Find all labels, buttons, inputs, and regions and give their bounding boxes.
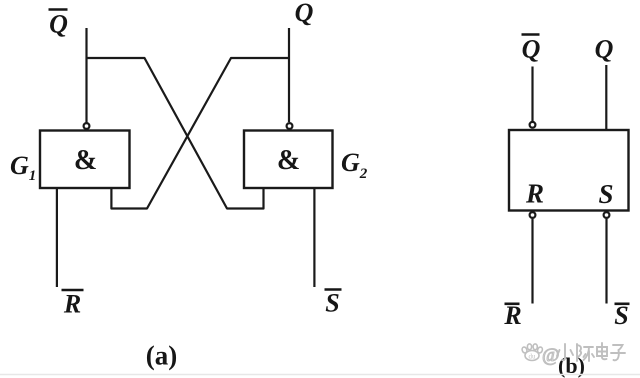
watermark character chen [577, 344, 594, 361]
latch block (b) [509, 130, 629, 211]
svg-text:Q: Q [295, 0, 314, 27]
wire Q-bar (b) [531, 67, 533, 122]
node S-bar (a) [325, 289, 342, 318]
svg-text:S: S [325, 289, 339, 318]
wire Q output vertical [288, 28, 290, 122]
wire S-bar (b) [605, 219, 607, 304]
watermark character xiao [557, 344, 573, 360]
wire R-bar input (a) [56, 188, 58, 287]
wire cross-couple from Q-bar node to G2 lower input [87, 58, 264, 209]
gate G2 (NAND) body [244, 131, 333, 189]
inverter bubble Q-bar output (b) [530, 122, 536, 128]
watermark character dian [597, 343, 607, 359]
inverter bubble G2 output [287, 123, 293, 129]
node Q-bar (a) [49, 10, 69, 39]
bottom separator line [0, 374, 640, 376]
svg-text:S: S [614, 301, 628, 330]
gate G1 (NAND) body [40, 131, 130, 189]
svg-text:(a): (a) [146, 341, 177, 371]
inverter bubble S input (b) [604, 212, 610, 218]
svg-text:Q: Q [595, 35, 614, 64]
svg-text:R: R [503, 301, 521, 330]
watermark baidu paw logo [521, 344, 543, 361]
node Q-bar (b) [522, 35, 541, 64]
svg-text:du: du [529, 353, 537, 361]
node R-bar (b) [503, 301, 521, 330]
inverter bubble R input (b) [530, 212, 536, 218]
svg-text:Q: Q [522, 35, 541, 64]
svg-text:S: S [598, 179, 613, 209]
wire Q-bar output vertical [85, 28, 87, 123]
wire S-bar input (a) [313, 188, 315, 287]
svg-text:Q: Q [49, 10, 68, 39]
svg-text:&: & [74, 145, 97, 176]
watermark character zi [611, 345, 625, 360]
node S-bar (b) [614, 301, 629, 330]
svg-text:&: & [277, 145, 300, 176]
svg-text:R: R [63, 290, 81, 319]
wire cross-couple from Q node to G1 lower input [111, 58, 289, 209]
node R-bar (a) [62, 290, 84, 319]
wire R-bar (b) [531, 219, 533, 304]
svg-text:R: R [525, 179, 544, 209]
wire Q (b) [605, 65, 607, 130]
inverter bubble G1 output [84, 123, 90, 129]
